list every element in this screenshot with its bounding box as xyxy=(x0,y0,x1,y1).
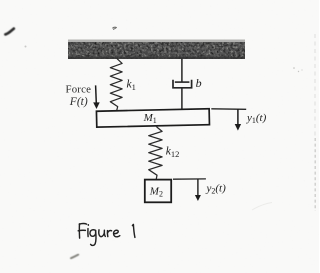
damper b rod upper xyxy=(181,59,183,82)
spring k12 xyxy=(149,126,162,179)
force arrow F(t) xyxy=(93,85,100,109)
F xyxy=(79,222,86,225)
y1 arrow xyxy=(235,109,241,131)
svg-text:y1(t): y1(t) xyxy=(246,112,267,125)
svg-text:y2(t): y2(t) xyxy=(206,182,227,195)
e xyxy=(114,230,120,237)
y2 reference line xyxy=(173,178,206,180)
svg-text:Force: Force xyxy=(66,84,92,96)
1 xyxy=(132,224,135,237)
faint dot xyxy=(25,46,27,48)
i xyxy=(87,229,89,237)
handwritten caption Figure 1 xyxy=(78,223,135,245)
g xyxy=(90,230,96,237)
pen mark top-left xyxy=(5,29,13,35)
svg-text:b: b xyxy=(196,76,202,90)
spring k1 xyxy=(110,58,122,111)
mass M1 box xyxy=(96,109,209,127)
damper cup xyxy=(173,80,192,88)
y1 reference line xyxy=(211,108,246,111)
stray dash above ceiling xyxy=(112,27,116,29)
faint specks xyxy=(293,67,295,69)
faint right edge artifact xyxy=(314,34,316,138)
svg-text:F(t): F(t) xyxy=(69,96,88,108)
damper rod lower xyxy=(181,88,183,110)
r xyxy=(106,231,108,237)
damper piston plate xyxy=(175,81,190,83)
y2 arrow xyxy=(195,179,201,201)
small scribble under caption xyxy=(71,255,78,259)
mass M2 box xyxy=(145,180,171,203)
ceiling fixed support bar xyxy=(68,40,245,60)
u xyxy=(99,230,104,237)
